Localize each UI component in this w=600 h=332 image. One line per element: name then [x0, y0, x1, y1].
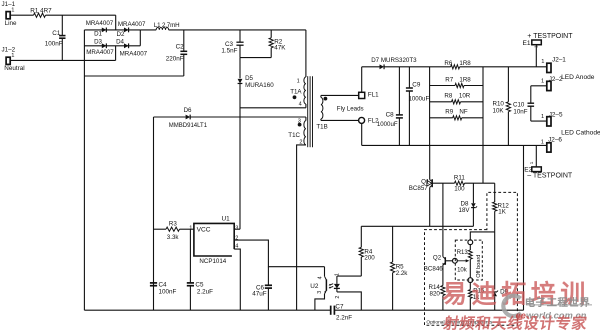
connector J2-6 / LED Cathode	[541, 129, 600, 152]
svg-text:1: 1	[541, 139, 544, 145]
diode D2	[117, 21, 146, 38]
watermark	[441, 279, 592, 332]
wire bottom ground rail	[84, 309, 523, 311]
svg-text:1: 1	[534, 45, 539, 48]
testpoint E1	[523, 33, 574, 67]
capacitor C3	[221, 30, 243, 58]
svg-text:LED Anode: LED Anode	[561, 74, 595, 81]
svg-text:D4: D4	[116, 39, 124, 46]
svg-text:Q2: Q2	[433, 254, 442, 261]
transformer T1B secondary winding	[316, 95, 327, 130]
resistor R10	[493, 67, 511, 146]
resistor R2	[269, 30, 286, 58]
svg-text:L1 2.7mH: L1 2.7mH	[154, 22, 180, 29]
wire output bottom bus	[362, 144, 547, 146]
svg-text:C5: C5	[195, 281, 204, 288]
svg-text:1000uF: 1000uF	[377, 121, 398, 128]
svg-text:MRA4007: MRA4007	[86, 49, 114, 56]
diode D3	[86, 38, 114, 56]
diode D9	[492, 232, 508, 310]
svg-text:R9: R9	[445, 109, 453, 116]
svg-text:FL1: FL1	[368, 92, 379, 99]
capacitor C2	[166, 30, 187, 76]
transformer core	[308, 76, 313, 147]
svg-text:220nF: 220nF	[166, 56, 184, 63]
svg-text:10k: 10k	[457, 267, 468, 273]
wire U1 pin2 feedback	[234, 240, 324, 267]
wire Q1 base row	[432, 182, 495, 184]
svg-text:J2–1: J2–1	[552, 56, 566, 63]
resistor R15	[468, 283, 485, 311]
svg-text:10K: 10K	[493, 107, 505, 114]
svg-text:1R8: 1R8	[459, 60, 471, 67]
svg-text:200: 200	[364, 254, 375, 261]
svg-text:R3: R3	[169, 220, 177, 227]
svg-text:C9: C9	[412, 82, 421, 89]
wire opto LED cathode stub	[337, 292, 361, 310]
wire resistor ladder left vertical	[429, 67, 431, 146]
svg-text:J2–6: J2–6	[548, 136, 562, 143]
svg-text:820: 820	[430, 290, 441, 297]
svg-text:T1C: T1C	[288, 132, 300, 139]
svg-text:D3: D3	[94, 38, 102, 45]
diode D6	[169, 107, 208, 129]
svg-text:R13: R13	[457, 250, 469, 256]
wire opto LED anode stub	[337, 275, 361, 277]
svg-text:10nF: 10nF	[513, 108, 527, 115]
svg-text:1: 1	[541, 78, 544, 84]
resistor R6 (on top rail)	[444, 60, 471, 69]
svg-text:1: 1	[11, 7, 14, 13]
transistor Q2	[424, 183, 453, 285]
svg-text:47K: 47K	[274, 45, 286, 52]
capacitor C5	[187, 229, 213, 310]
wire T1C pin2 ground drop	[297, 145, 306, 310]
connector J1-1	[2, 1, 18, 27]
svg-text:47uF: 47uF	[252, 291, 267, 298]
svg-text:+ TESTPOINT: + TESTPOINT	[527, 33, 573, 40]
svg-text:R1 4R7: R1 4R7	[30, 7, 52, 14]
svg-text:D7 MURS320T3: D7 MURS320T3	[371, 57, 417, 64]
connector J2-5	[531, 111, 563, 126]
capacitor C7 (Y-cap in ground rail)	[331, 303, 353, 321]
svg-text:2.2uF: 2.2uF	[197, 289, 213, 296]
resistor R9	[430, 109, 483, 120]
svg-text:3: 3	[235, 225, 238, 231]
svg-text:10R: 10R	[459, 93, 471, 100]
resistor R8	[430, 93, 483, 104]
svg-text:Off board: Off board	[476, 255, 482, 278]
resistor R11	[454, 175, 465, 193]
potentiometer R13	[453, 240, 473, 283]
svg-text:R8: R8	[444, 93, 452, 100]
connector J2-2 / LED Anode	[531, 74, 595, 91]
svg-text:C1: C1	[52, 30, 61, 37]
diode D4	[116, 39, 148, 58]
svg-text:R11: R11	[454, 175, 465, 182]
svg-text:1K: 1K	[498, 209, 506, 216]
resistor R3	[154, 220, 194, 240]
resistor R5	[391, 226, 409, 310]
svg-text:3.3k: 3.3k	[167, 234, 180, 241]
optocoupler U2	[310, 267, 341, 311]
svg-text:射频和天线设计专家: 射频和天线设计专家	[441, 315, 588, 332]
fly lead FL1	[321, 92, 379, 99]
diode D1	[86, 20, 114, 38]
svg-text:E1: E1	[523, 40, 531, 47]
svg-text:1R8: 1R8	[459, 77, 471, 84]
capacitor C4	[150, 282, 177, 296]
wire FL1 to output rail	[361, 67, 363, 93]
wire output top rail	[362, 66, 547, 68]
svg-text:1.5nF: 1.5nF	[221, 48, 237, 55]
wire VCC left vertical	[153, 117, 155, 310]
svg-text:C8: C8	[386, 112, 395, 119]
svg-text:MURA160: MURA160	[245, 82, 274, 89]
svg-text:Neutral: Neutral	[4, 65, 24, 72]
wire collector row (R4/R5/Q1/D8)	[361, 225, 473, 227]
svg-text:电子工程世界: 电子工程世界	[525, 296, 590, 309]
wire drain vertical (D5 to U1 pin3)	[239, 84, 241, 230]
connector J2-1	[541, 56, 566, 72]
svg-text:MMBD914LT1: MMBD914LT1	[169, 123, 208, 129]
svg-text:D5: D5	[245, 75, 253, 82]
svg-text:4: 4	[299, 101, 302, 107]
svg-text:4: 4	[317, 276, 323, 279]
svg-text:D2: D2	[117, 31, 125, 38]
svg-text:VCC: VCC	[197, 226, 211, 233]
svg-text:C7: C7	[335, 303, 344, 310]
resistor R4	[359, 226, 375, 276]
wire bridge bottom row	[84, 45, 140, 47]
svg-text:2.2nF: 2.2nF	[336, 314, 352, 321]
testpoint E2	[524, 145, 573, 179]
svg-text:100nF: 100nF	[159, 289, 177, 296]
resistor R7	[430, 77, 483, 88]
svg-text:C4: C4	[159, 282, 168, 289]
resistor R12	[493, 183, 510, 232]
svg-text:U1: U1	[222, 216, 231, 223]
wire bridge top row	[84, 29, 140, 31]
wire C2 return	[84, 75, 183, 77]
svg-text:3: 3	[317, 291, 323, 294]
svg-text:1: 1	[529, 161, 534, 164]
wire bridge left vertical (primary DC-)	[83, 30, 85, 310]
IC U1 NCP1014	[189, 216, 238, 265]
svg-text:BC846: BC846	[424, 265, 443, 272]
svg-text:– TESTPOINT: – TESTPOINT	[527, 172, 573, 179]
wire Line rail	[10, 15, 116, 30]
capacitor C8	[377, 67, 403, 146]
svg-text:NF: NF	[459, 109, 467, 116]
svg-text:18V: 18V	[459, 207, 471, 214]
wire U1 pin3 lead	[234, 228, 240, 230]
svg-text:C2: C2	[176, 43, 185, 50]
diode D5	[238, 58, 275, 90]
svg-text:BC857: BC857	[409, 185, 428, 192]
diode D7	[371, 57, 417, 69]
svg-text:T1B: T1B	[316, 124, 327, 131]
dashed box off board	[455, 240, 482, 280]
capacitor C10	[513, 86, 534, 121]
svg-text:2: 2	[335, 296, 341, 299]
wire aux winding row (T1C pin3 / D6)	[154, 116, 306, 118]
svg-text:NCP1014: NCP1014	[199, 258, 226, 265]
svg-text:MRA4007: MRA4007	[118, 21, 146, 28]
fly lead FL2	[321, 117, 379, 124]
transformer T1C aux winding	[288, 117, 306, 145]
capacitor C6	[252, 267, 272, 311]
transformer T1A primary winding	[290, 30, 306, 108]
wire bridge right vertical	[139, 30, 141, 46]
svg-text:100nF: 100nF	[45, 40, 63, 47]
wire secondary ground vertical	[523, 145, 525, 310]
wire snubber bottom	[240, 57, 271, 59]
svg-text:U2: U2	[310, 283, 319, 290]
svg-text:Fly Leads: Fly Leads	[337, 106, 364, 113]
svg-text:100: 100	[454, 185, 465, 192]
wire resistor ladder right vertical	[482, 67, 484, 183]
svg-text:1000uF: 1000uF	[409, 95, 430, 102]
svg-text:D6: D6	[184, 107, 192, 114]
svg-text:MRA4007: MRA4007	[120, 50, 148, 57]
svg-text:1: 1	[11, 53, 14, 59]
capacitor C9	[406, 67, 430, 146]
wire HV+ rail	[140, 29, 306, 31]
svg-text:MRA4007: MRA4007	[86, 20, 114, 27]
dashed box optional dimming components	[425, 192, 518, 325]
wire T1A pin4 to drain	[240, 107, 306, 109]
wire R12 to R13 link	[470, 232, 494, 240]
wire U1 pin4 ground	[234, 249, 240, 310]
svg-text:2.2k: 2.2k	[396, 270, 409, 277]
capacitor C1	[45, 15, 66, 60]
svg-text:1: 1	[541, 59, 544, 65]
svg-text:R6: R6	[444, 60, 452, 67]
svg-text:Line: Line	[5, 20, 17, 27]
resistor R14	[429, 284, 446, 310]
svg-text:LED Cathode: LED Cathode	[561, 129, 600, 136]
svg-text:1: 1	[297, 78, 300, 84]
svg-text:R7: R7	[445, 77, 453, 84]
svg-text:T1A: T1A	[290, 88, 302, 95]
svg-text:J2–5: J2–5	[549, 111, 563, 118]
resistor R1	[30, 7, 52, 17]
inductor L1	[154, 22, 180, 30]
zener D8	[459, 183, 478, 226]
wire Neutral rail	[10, 46, 115, 61]
svg-text:D1: D1	[94, 31, 102, 38]
wire FL2 drop	[361, 123, 363, 145]
transistor Q1	[409, 145, 432, 226]
svg-text:1: 1	[541, 114, 544, 120]
connector J1-2	[2, 47, 25, 72]
